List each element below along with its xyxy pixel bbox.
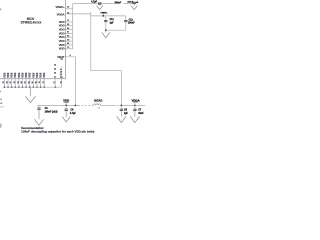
svg-text:74: 74 <box>38 81 41 83</box>
capacitor C1x 100nF <box>125 16 127 20</box>
svg-text:VSS: VSS <box>13 72 17 77</box>
svg-text:23: 23 <box>3 81 5 83</box>
svg-text:4.7µF: 4.7µF <box>91 0 98 3</box>
svg-text:BEAD: BEAD <box>94 98 102 102</box>
svg-text:VSS: VSS <box>24 72 28 77</box>
capacitor C8 1uF <box>121 105 123 107</box>
svg-text:VSS: VSS <box>35 72 39 77</box>
capacitor C6 4.7uF <box>65 105 67 108</box>
wire VDD bus vertical <box>72 4 74 49</box>
ferrite bead L1 <box>93 104 101 105</box>
junction VBAT to VDD net <box>75 105 77 107</box>
svg-text:10K: 10K <box>0 103 3 105</box>
svg-text:C1x: C1x <box>129 19 134 21</box>
svg-text:VREF+: VREF+ <box>56 5 65 9</box>
svg-text:100nF: 100nF <box>114 3 121 5</box>
ground <box>133 4 135 6</box>
wire VDDA to bead circuit <box>66 13 91 15</box>
wire VBAT <box>66 57 76 106</box>
svg-text:20: 20 <box>32 81 34 83</box>
svg-text:VDDA: VDDA <box>131 98 140 102</box>
capacitor C7 10nF <box>134 105 136 107</box>
svg-text:VREF-: VREF- <box>59 66 63 78</box>
junction <box>102 15 104 17</box>
ground <box>105 30 107 32</box>
svg-text:(1): (1) <box>61 59 64 61</box>
wire VREF+ node <box>102 14 104 16</box>
svg-text:VSS: VSS <box>28 72 32 77</box>
svg-text:VDD: VDD <box>63 99 69 103</box>
svg-text:46: 46 <box>35 81 38 83</box>
svg-text:47: 47 <box>9 81 12 83</box>
MCU U1 box <box>0 0 66 79</box>
svg-text:VSS: VSS <box>17 72 21 77</box>
wire top VDD rail <box>73 3 114 5</box>
svg-text:VSS: VSS <box>42 72 46 77</box>
svg-text:18: 18 <box>14 81 16 83</box>
svg-text:VSS: VSS <box>39 72 43 77</box>
capacitor C1x 1uF <box>105 16 107 20</box>
wire VSS ground rail <box>4 86 61 88</box>
svg-text:100nF: 100nF <box>128 22 135 24</box>
svg-text:L1: L1 <box>98 107 100 109</box>
svg-text:35: 35 <box>7 81 9 83</box>
svg-text:4.7µF: 4.7µF <box>70 112 77 115</box>
wire VDD net bottom <box>37 104 78 106</box>
svg-text:VSSA: VSSA <box>53 62 57 78</box>
svg-text:100nF decoupling capacitor for: 100nF decoupling capacitor for each VDD … <box>21 130 94 134</box>
capacitor C4 100nF x10 <box>38 105 40 107</box>
cut wire left edge <box>0 106 4 108</box>
svg-text:1µF: 1µF <box>110 22 115 24</box>
ground <box>99 4 101 5</box>
svg-text:VSS: VSS <box>20 72 24 77</box>
junction <box>105 29 107 31</box>
junction <box>65 105 67 107</box>
svg-text:10nF: 10nF <box>138 113 144 115</box>
svg-text:VDDA: VDDA <box>57 12 65 16</box>
svg-text:STM32L4xxxx: STM32L4xxxx <box>21 21 42 25</box>
svg-text:VSS: VSS <box>31 72 35 77</box>
svg-text:12: 12 <box>43 81 45 83</box>
svg-text:52: 52 <box>25 81 27 83</box>
cut component left edge <box>0 124 1 128</box>
svg-text:1µF: 1µF <box>124 113 129 115</box>
svg-text:VREF+: VREF+ <box>100 12 108 14</box>
svg-text:100nF (x10): 100nF (x10) <box>45 111 58 113</box>
svg-text:VSS: VSS <box>2 72 6 77</box>
svg-text:65: 65 <box>28 81 30 83</box>
ground main arrow <box>29 87 31 96</box>
svg-text:VDD: VDD <box>59 47 65 51</box>
svg-text:VSS: VSS <box>10 72 14 77</box>
svg-text:C1x: C1x <box>110 19 115 21</box>
pins VSS x12 bottom <box>2 72 46 77</box>
svg-text:27: 27 <box>54 81 56 83</box>
svg-text:31: 31 <box>17 81 19 83</box>
svg-text:40: 40 <box>20 81 23 83</box>
svg-text:31: 31 <box>60 81 62 83</box>
svg-text:VSS: VSS <box>6 72 10 77</box>
wire VREF caps common <box>106 29 126 31</box>
